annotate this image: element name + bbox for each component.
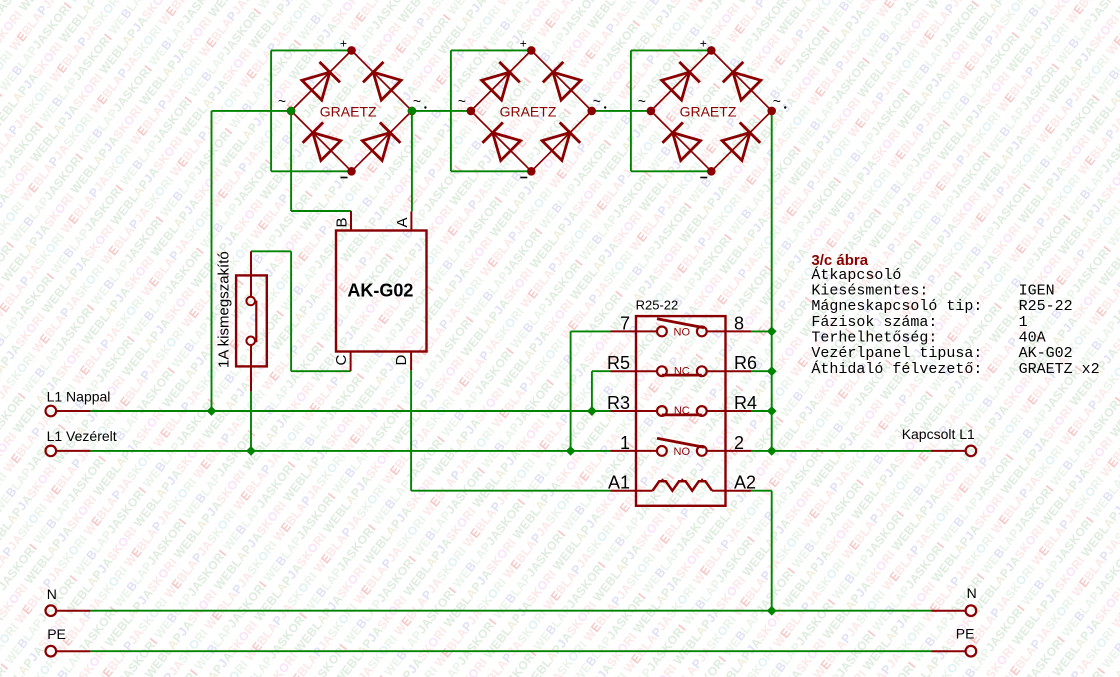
svg-text:NC: NC [674,405,690,417]
svg-text:R5: R5 [607,353,630,373]
svg-text:~: ~ [413,93,421,109]
svg-text:N: N [967,585,977,601]
svg-text:B: B [334,217,351,227]
svg-text:R25-22: R25-22 [1019,298,1073,315]
svg-text:Átkapcsoló: Átkapcsoló [811,266,901,284]
svg-text:AK-G02: AK-G02 [1019,345,1073,362]
svg-text:D: D [393,355,410,366]
svg-text:2: 2 [734,433,744,453]
svg-text:GRAETZ: GRAETZ [680,103,737,119]
svg-text:L1 Nappal: L1 Nappal [47,389,111,405]
svg-text:L1 Vezérelt: L1 Vezérelt [47,428,117,444]
svg-text:NO: NO [674,446,691,458]
svg-text:A2: A2 [734,473,756,493]
svg-text:R4: R4 [734,393,757,413]
svg-text:A: A [394,217,411,227]
svg-text:PE: PE [47,626,66,642]
svg-text:GRAETZ: GRAETZ [320,103,377,119]
svg-text:+: + [340,37,347,51]
svg-text:~: ~ [458,93,466,109]
svg-text:~: ~ [638,93,646,109]
svg-text:8: 8 [734,313,744,333]
svg-text:7: 7 [620,313,630,333]
svg-text:Mágneskapcsoló tip:: Mágneskapcsoló tip: [811,298,982,315]
svg-text:Terhelhetőség:: Terhelhetőség: [811,330,937,347]
svg-text:GRAETZ x2: GRAETZ x2 [1019,361,1100,378]
svg-text:C: C [333,355,350,366]
svg-text:Kapcsolt L1: Kapcsolt L1 [902,426,975,442]
svg-text:GRAETZ: GRAETZ [500,103,557,119]
svg-text:NO: NO [674,327,691,339]
svg-text:NC: NC [674,365,690,377]
svg-text:Vezérlpanel tipusa:: Vezérlpanel tipusa: [811,345,982,362]
svg-text:R3: R3 [607,393,630,413]
svg-text:AK-G02: AK-G02 [347,281,413,301]
svg-text:1A kismegszakító: 1A kismegszakító [216,251,233,368]
svg-text:A1: A1 [608,473,630,493]
svg-text:1: 1 [1019,314,1028,331]
svg-text:1: 1 [620,433,630,453]
svg-text:40A: 40A [1019,330,1046,347]
svg-text:Fázisok száma:: Fázisok száma: [811,314,937,331]
svg-text:~: ~ [278,93,286,109]
svg-text:Kiesésmentes:: Kiesésmentes: [811,283,928,300]
svg-text:R6: R6 [734,353,757,373]
svg-text:N: N [47,586,57,602]
svg-text:R25-22: R25-22 [636,298,679,313]
svg-text:Áthidaló félvezető:: Áthidaló félvezető: [811,360,982,378]
svg-text:IGEN: IGEN [1019,283,1055,300]
svg-text:+: + [520,37,527,51]
svg-text:+: + [700,37,707,51]
svg-text:PE: PE [956,625,975,641]
svg-text:~: ~ [593,93,601,109]
svg-text:~: ~ [773,93,781,109]
